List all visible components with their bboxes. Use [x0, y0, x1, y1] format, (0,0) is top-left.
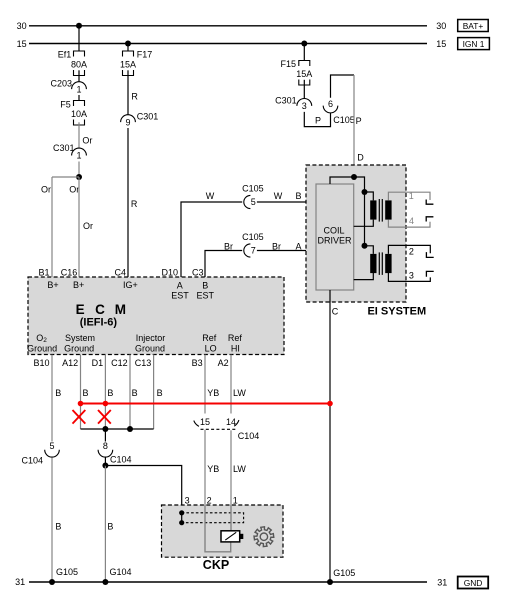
wire LW ref HI A2 [230, 355, 232, 414]
wire B to ground G104 [104, 466, 106, 583]
wire primary feed vertical [364, 192, 366, 246]
ground bus joining A12 D1 C12 C13 [81, 428, 154, 430]
wire Or fuse F5 to connector C301 pin 1 [78, 122, 80, 148]
bus line 31 ground [29, 581, 427, 583]
EI SYSTEM dashed box [306, 165, 406, 302]
svg-text:B: B [157, 388, 163, 398]
reluctor gear icon [254, 527, 274, 547]
wire YB below C104 [204, 430, 206, 505]
svg-text:Or: Or [41, 185, 51, 195]
svg-text:R: R [131, 199, 138, 209]
svg-text:YB: YB [207, 388, 219, 398]
svg-text:A: A [295, 242, 301, 252]
svg-text:F5: F5 [60, 99, 71, 109]
wire fuse Ef1 to connector C203 [78, 70, 80, 82]
junction node primary 2 [362, 243, 368, 249]
svg-text:Or: Or [82, 136, 92, 146]
T1 secondary loop to spark plugs 1 and 4 [388, 192, 430, 200]
svg-text:BAT+: BAT+ [463, 21, 484, 31]
T2 secondary loop to spark plugs 2 and 3 [388, 245, 430, 254]
wire fuse F15 to connector C301 pin 3 [303, 80, 305, 99]
ground node G105 [49, 579, 55, 585]
svg-text:COIL: COIL [323, 226, 344, 236]
CKP pickup coil element [221, 531, 240, 542]
wire W to EI system pin B [257, 201, 316, 203]
red node A12 [78, 401, 84, 407]
svg-text:C301: C301 [53, 143, 75, 153]
svg-text:B10: B10 [33, 358, 49, 368]
svg-text:D1: D1 [92, 358, 104, 368]
wire Br from ECM pin C3 up and right [205, 251, 242, 278]
wire shield drain to CKP pin 3 [105, 466, 181, 513]
wire C105-6 up and right to EI system pin D [331, 75, 355, 98]
svg-text:EST: EST [196, 290, 214, 300]
svg-text:M: M [115, 302, 126, 317]
svg-text:DRIVER: DRIVER [317, 235, 352, 245]
svg-text:B: B [83, 388, 89, 398]
svg-text:C105: C105 [242, 183, 264, 193]
svg-text:B: B [55, 522, 61, 532]
svg-text:LW: LW [233, 388, 246, 398]
ignition coil T2 core [378, 252, 380, 275]
connector arc pin 1 [72, 148, 87, 155]
svg-text:Or: Or [69, 185, 79, 195]
fuse F5 bracket top [74, 101, 85, 107]
svg-text:B: B [132, 388, 138, 398]
svg-text:15: 15 [17, 39, 27, 49]
GND terminal box [458, 577, 489, 589]
svg-text:W: W [274, 191, 283, 201]
svg-text:Ef1: Ef1 [58, 50, 72, 60]
svg-text:C4: C4 [114, 267, 126, 277]
svg-text:5: 5 [49, 441, 54, 451]
svg-text:LW: LW [233, 464, 246, 474]
svg-text:Br: Br [272, 242, 281, 252]
svg-text:C104: C104 [21, 456, 43, 466]
svg-text:1: 1 [76, 151, 81, 161]
svg-text:C: C [95, 302, 105, 317]
wire B to ground G105 [51, 458, 53, 583]
fuse Ef1 bracket top [74, 51, 85, 57]
fuse F17 bracket bottom [123, 70, 134, 76]
svg-text:Ground: Ground [135, 344, 165, 354]
svg-text:1: 1 [233, 496, 238, 506]
svg-text:C104: C104 [238, 431, 260, 441]
junction node shield lower [179, 520, 184, 525]
wire B injector ground C13 [153, 355, 155, 430]
svg-text:C3: C3 [192, 267, 204, 277]
junction node C12 ground bus [127, 426, 133, 432]
svg-text:EI SYSTEM: EI SYSTEM [367, 306, 426, 318]
svg-text:D10: D10 [161, 267, 178, 277]
svg-text:A2: A2 [218, 358, 229, 368]
svg-text:F15: F15 [280, 59, 296, 69]
ignition coil T2 right winding [385, 254, 391, 273]
svg-text:Or: Or [83, 221, 93, 231]
node bus15 to fuse F15 [301, 41, 307, 47]
svg-text:8: 8 [103, 441, 108, 451]
wire YB ref LO B3 [204, 355, 206, 414]
BAT+ terminal box [458, 20, 489, 32]
svg-text:Br: Br [224, 242, 233, 252]
svg-text:3: 3 [409, 271, 414, 281]
svg-text:Injector: Injector [136, 333, 166, 343]
svg-text:G105: G105 [333, 568, 355, 578]
svg-text:CKP: CKP [203, 558, 229, 572]
svg-text:10A: 10A [71, 109, 87, 119]
svg-text:P: P [315, 115, 321, 125]
ground node G104 [102, 579, 108, 585]
svg-text:A12: A12 [62, 358, 78, 368]
svg-text:HI: HI [231, 344, 240, 354]
red node D1 [103, 401, 109, 407]
svg-text:C13: C13 [135, 358, 152, 368]
junction node D1 ground bus [102, 426, 108, 432]
wire Br to EI system pin A [257, 250, 316, 252]
svg-text:C105: C105 [333, 115, 355, 125]
svg-text:B+: B+ [47, 280, 58, 290]
spark plug gap 1-4 bottom electrode [426, 217, 433, 222]
red node EI ground [327, 401, 333, 407]
svg-text:R: R [131, 92, 138, 102]
svg-text:B: B [107, 388, 113, 398]
fuse F17 bracket top [123, 51, 134, 57]
svg-text:15A: 15A [120, 59, 136, 69]
wire bus30 down to fuse Ef1 [78, 26, 80, 51]
svg-text:B1: B1 [38, 267, 49, 277]
connector C104 pin 15 hook [194, 421, 199, 427]
junction node shield upper [179, 510, 184, 515]
svg-text:GND: GND [464, 578, 483, 588]
connector arc pin 5 [244, 195, 251, 208]
ignition coil T1 core [378, 199, 380, 222]
red X mark D1 [98, 410, 111, 424]
svg-text:E: E [76, 302, 85, 317]
svg-text:B3: B3 [192, 358, 203, 368]
connector arc pin 8 [98, 450, 113, 457]
svg-text:B: B [55, 388, 61, 398]
svg-text:C301: C301 [137, 112, 159, 122]
red highlight wire ground path [81, 403, 331, 405]
svg-text:15A: 15A [296, 69, 312, 79]
svg-text:B: B [202, 281, 208, 291]
svg-text:A: A [177, 281, 183, 291]
svg-text:B+: B+ [73, 280, 84, 290]
red X mark A12 [73, 410, 86, 424]
bus line 30 [29, 25, 427, 27]
wire R fuse F17 to connector C301 pin 9 [127, 70, 129, 115]
wire P C301-3 down and right to C105 pin 6 [304, 112, 330, 127]
svg-text:B: B [295, 191, 301, 201]
svg-text:C104: C104 [110, 455, 132, 465]
svg-text:3: 3 [185, 496, 190, 506]
svg-text:3: 3 [302, 101, 307, 111]
svg-text:C105: C105 [242, 232, 264, 242]
wire B system ground D1 [104, 355, 106, 430]
wire LW below C104 [230, 430, 232, 505]
connector arc pin 5 [45, 450, 60, 457]
svg-text:80A: 80A [71, 59, 87, 69]
connector C104 pin 14 hook [234, 420, 239, 426]
shield dashed outline [182, 513, 244, 523]
connector C104 dashed link [201, 428, 236, 430]
ignition coil T2 left winding [370, 254, 376, 273]
svg-text:Ground: Ground [64, 344, 94, 354]
svg-text:C12: C12 [111, 358, 128, 368]
COIL DRIVER box [316, 184, 354, 290]
svg-text:5: 5 [251, 197, 256, 207]
svg-text:P: P [356, 116, 362, 126]
svg-text:F17: F17 [137, 50, 153, 60]
junction node Or split [76, 174, 82, 180]
fuse F15 bracket top [299, 61, 310, 67]
svg-text:2: 2 [409, 246, 414, 256]
wire P down to EI system pin D [353, 75, 355, 177]
svg-text:C203: C203 [50, 79, 72, 89]
wire jog to left branch [52, 176, 79, 178]
wire D internal to coil driver [330, 177, 365, 192]
wire LW into sensor [230, 505, 232, 531]
svg-text:LO: LO [205, 344, 217, 354]
svg-text:6: 6 [328, 99, 333, 109]
svg-text:1: 1 [76, 84, 81, 94]
CKP magnet block [240, 534, 244, 539]
svg-text:31: 31 [15, 577, 25, 587]
wire bus15 down to fuse F15 [303, 44, 305, 61]
svg-text:(IEFI-6): (IEFI-6) [80, 317, 118, 329]
IGN 1 terminal box [458, 38, 490, 50]
svg-text:9: 9 [125, 117, 130, 127]
wire C301-1 down to junction [78, 162, 80, 178]
svg-text:W: W [206, 191, 215, 201]
svg-text:C16: C16 [61, 267, 78, 277]
svg-text:YB: YB [207, 464, 219, 474]
svg-text:Ground: Ground [27, 344, 57, 354]
wire B1 branch down to ECM [51, 177, 53, 277]
svg-text:30: 30 [436, 21, 446, 31]
svg-text:15: 15 [436, 39, 446, 49]
junction node D [351, 174, 357, 180]
svg-text:30: 30 [17, 21, 27, 31]
svg-text:7: 7 [251, 246, 256, 256]
connector arc pin 6 [323, 106, 338, 113]
wire injector ground bus to C104 pin 8 [104, 429, 106, 442]
wire C203 to fuse F5 [78, 95, 80, 101]
wire between shield nodes [181, 513, 183, 523]
wire C16 branch down to ECM [78, 177, 80, 277]
svg-text:1: 1 [409, 191, 414, 201]
node bus15 to fuse F17 [125, 41, 131, 47]
wire C104-8 to junction [104, 457, 106, 465]
spark plug gap 1-4 top electrode [426, 200, 433, 205]
ground node G105 right [327, 579, 333, 585]
connector arc pin 3 [297, 98, 312, 105]
svg-text:Ref: Ref [202, 333, 217, 343]
svg-text:G105: G105 [56, 567, 78, 577]
wire B O2 ground B10 [51, 355, 53, 442]
spark plug gap 2-3 bottom electrode [426, 271, 433, 276]
svg-text:System: System [65, 333, 95, 343]
svg-text:31: 31 [437, 578, 447, 588]
CKP dashed box [162, 505, 284, 557]
bus line 15 [29, 43, 427, 45]
svg-text:15: 15 [200, 417, 210, 427]
connector arc pin 9 [121, 115, 136, 122]
svg-text:Ref: Ref [228, 333, 243, 343]
svg-text:D: D [357, 153, 364, 163]
ignition coil T1 right winding [385, 200, 391, 219]
junction node CKP shield split [102, 463, 108, 469]
ignition coil T1 primary wires [354, 192, 374, 226]
svg-text:G104: G104 [110, 567, 132, 577]
svg-text:IG+: IG+ [123, 280, 138, 290]
fuse F5 bracket bottom [74, 120, 85, 126]
wire YB into sensor return [205, 505, 231, 552]
wire B injector ground C12 [129, 355, 131, 430]
svg-text:EST: EST [171, 290, 189, 300]
wire C from coil driver to ground [329, 290, 331, 582]
junction node primary 1 [362, 189, 368, 195]
node bus30 to fuse Ef1 [76, 23, 82, 29]
fuse F15 bracket bottom [299, 80, 310, 86]
wire R C301-9 down to ECM pin C4 [127, 128, 129, 277]
svg-text:IGN 1: IGN 1 [463, 39, 485, 49]
wire W from ECM pin D10 up and right [181, 202, 242, 277]
svg-text:C: C [332, 306, 339, 316]
svg-text:2: 2 [207, 496, 212, 506]
fuse Ef1 bracket bottom [74, 70, 85, 76]
connector arc pin 1 [72, 82, 87, 89]
spark plug gap 2-3 top electrode [426, 252, 433, 257]
wire bus15 down to fuse F17 [127, 44, 129, 52]
svg-text:4: 4 [409, 216, 414, 226]
svg-text:B: B [107, 522, 113, 532]
ignition coil T2 primary wires [354, 246, 374, 280]
ECM dashed box [28, 277, 284, 355]
svg-text:C301: C301 [275, 95, 297, 105]
wire B system ground A12 [80, 355, 82, 430]
ignition coil T1 left winding [370, 200, 376, 219]
connector arc pin 7 [244, 244, 251, 257]
